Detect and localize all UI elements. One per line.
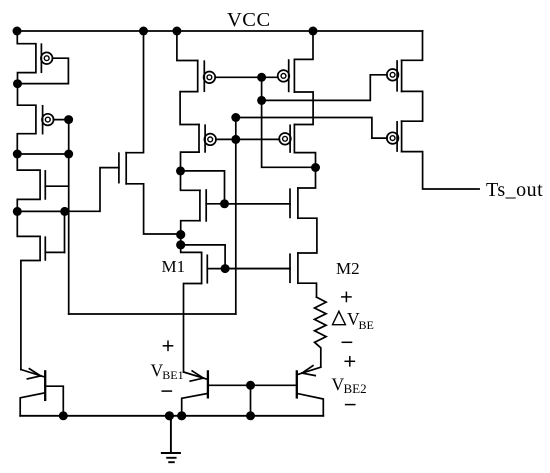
node rail-Q1base [59, 411, 68, 420]
node VCC-C [172, 27, 181, 36]
wire link down to cascode drain [262, 100, 316, 167]
wire base down [250, 385, 252, 416]
svg-text:VCC: VCC [227, 9, 271, 31]
svg-text:Ts_out: Ts_out [486, 179, 543, 201]
transistor Q3 (right PNP) [297, 366, 324, 416]
node VCC-A [13, 27, 22, 36]
svg-text:BE: BE [359, 318, 374, 332]
node row211-right [60, 207, 69, 216]
wire ground rail [20, 415, 323, 417]
label VBE2 [332, 374, 367, 396]
node M1-drain-b [176, 240, 185, 249]
wire wire1 to right pair top gate [262, 75, 387, 101]
node wire1-start [257, 96, 266, 105]
wire tie riser [261, 77, 263, 100]
wire top gate tie [215, 76, 278, 78]
wire node row y=154 [17, 153, 68, 155]
node row154-right [64, 150, 73, 159]
transistor PA (mid-left top PMOS) [177, 31, 215, 125]
transistor PE (output top PMOS) [387, 31, 423, 121]
label minus (below delta VBE) [342, 341, 351, 343]
node cascode-drain [311, 163, 320, 172]
label plus (VBE2) [345, 357, 354, 366]
node P2-gate [64, 115, 73, 124]
wire gate row to NG [225, 203, 291, 205]
transistor PC (mid-right top PMOS) [278, 31, 313, 125]
svg-text:BE1: BE1 [162, 368, 183, 382]
node rail-Q2base [246, 411, 255, 420]
transistor P1 (left column top, diode-connected PMOS) [17, 31, 68, 84]
svg-text:M2: M2 [336, 259, 360, 278]
wire cascode gate tie [216, 138, 280, 140]
node Q2-base [246, 381, 255, 390]
node cascode-tie [231, 135, 240, 144]
node VCC-D [309, 27, 318, 36]
node diode-top [176, 166, 185, 175]
ground [162, 416, 180, 462]
label minus (below VBE2) [346, 404, 355, 406]
node top-tie [257, 73, 266, 82]
node rail-gnd [165, 411, 174, 420]
transistor M1 (diode NMOS) [181, 245, 225, 372]
wire bias vertical B (P2 gate down to y=314) [68, 120, 70, 314]
transistor NG (cascode above M2) [225, 168, 317, 254]
node row154-left [13, 150, 22, 159]
node N6-gate-tie [220, 199, 229, 208]
label plus (VBE1) [163, 341, 172, 350]
transistor M2 [225, 253, 316, 297]
transistor PD (mid-right cascode PMOS) [279, 125, 315, 168]
wire bias horizontal y=314 [69, 313, 236, 315]
transistor N4 (left column bottom) [17, 211, 64, 369]
wire long vertical x=235.8 [235, 118, 237, 315]
transistor P2 (left column second, diode-connected PMOS) [17, 84, 68, 154]
node M1-gate-tie [221, 264, 230, 273]
svg-text:M1: M1 [162, 257, 186, 276]
resistor R (delta VBE) [315, 297, 327, 367]
node row211-left [13, 207, 22, 216]
label VBE1 [151, 360, 184, 382]
transistor Q1 (left PNP) [20, 369, 63, 416]
transistor Q2 (middle PNP) [182, 371, 297, 416]
label plus (top of resistor) [342, 292, 351, 301]
label minus (VBE1) [162, 390, 171, 392]
wire node row y=211.4 [17, 210, 64, 212]
transistor N5 (middle NMOS, drain to VCC) [65, 31, 181, 234]
wire gate row to M2 [225, 268, 290, 270]
transistor N6 (diode NMOS above M1) [181, 171, 225, 235]
node cascode-tie-upper [231, 113, 240, 122]
wire between drain dots [180, 235, 182, 245]
node rail-Q2col [177, 411, 186, 420]
node M1-drain-a [176, 230, 185, 239]
node P1-drain [13, 79, 22, 88]
transistor PB (mid-left cascode PMOS) [181, 125, 217, 171]
wire VCC rail [17, 30, 423, 32]
transistor N3 (left column third) [17, 154, 68, 211]
svg-text:BE2: BE2 [344, 381, 367, 396]
transistor PF (output bottom PMOS) [387, 121, 479, 189]
node VCC-B [139, 27, 148, 36]
wire wire2 to right pair bottom gate [236, 118, 387, 139]
label delta VBE [333, 309, 374, 332]
